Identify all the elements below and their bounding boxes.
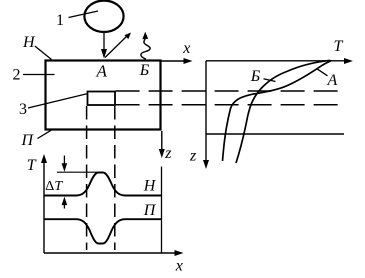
svg-text:Н: Н: [22, 34, 36, 51]
incident beam arrow (lamp to point A): [103, 32, 105, 51]
svg-text:x: x: [182, 40, 190, 57]
delta T upper arrow (down): [63, 156, 65, 166]
vertical dashed projection line left: [86, 106, 88, 250]
pointer line from P to rectangle bottom corner: [38, 129, 54, 139]
right graph depth line (solid): [206, 133, 344, 135]
reflected beam arrow at A: [105, 36, 128, 58]
pointer line from N to rectangle corner: [35, 46, 52, 60]
bottom graph x axis (horizontal): [44, 252, 178, 254]
svg-text:1: 1: [56, 12, 64, 29]
heat source lamp 1 (ellipse): [84, 1, 123, 32]
svg-text:z: z: [164, 145, 172, 162]
defect rectangle 3: [88, 92, 116, 106]
svg-text:2: 2: [13, 67, 21, 84]
pointer line from label 1 to lamp: [69, 11, 99, 18]
pointer from A to curve: [317, 69, 328, 76]
horizontal dashed projection line lower: [116, 104, 340, 106]
svg-text:П: П: [143, 202, 157, 219]
delta T reference line at bump peak: [57, 171, 100, 173]
svg-text:Н: Н: [143, 178, 157, 195]
svg-text:Б: Б: [139, 62, 150, 79]
pointer from B to curve: [264, 79, 276, 82]
bottom graph T axis (vertical): [43, 159, 45, 253]
svg-text:А: А: [96, 61, 108, 80]
svg-text:П: П: [21, 132, 35, 149]
right graph z axis (vertical): [205, 61, 207, 162]
pointer line from 3 to defect: [28, 94, 88, 109]
svg-text:А: А: [327, 72, 338, 89]
pointer line from 2 into rectangle: [23, 74, 55, 76]
svg-text:ΔТ: ΔТ: [45, 179, 63, 194]
right graph T axis (horizontal): [206, 60, 347, 62]
svg-text:3: 3: [19, 101, 27, 118]
delta T lower arrow (up): [63, 203, 65, 209]
svg-text:z: z: [189, 148, 197, 165]
specimen rectangle (plate): [46, 61, 161, 130]
vertical dashed projection line right: [114, 106, 116, 250]
bottom graph right border: [161, 167, 163, 254]
temperature profile N (front, bump): [45, 173, 162, 196]
svg-text:Т: Т: [334, 38, 344, 55]
x axis of specimen: [162, 60, 188, 62]
svg-text:Т: Т: [27, 157, 37, 174]
svg-text:Б: Б: [250, 68, 261, 85]
temperature curve B (steep): [236, 60, 330, 163]
horizontal dashed projection line upper: [116, 90, 340, 92]
svg-text:x: x: [175, 258, 183, 275]
z axis of specimen: [161, 131, 163, 151]
emitted wavy arrow at B: [141, 39, 150, 59]
temperature profile P (back, dip): [45, 219, 162, 243]
temperature curve A (over defect-free zone, with plateau): [223, 61, 332, 161]
